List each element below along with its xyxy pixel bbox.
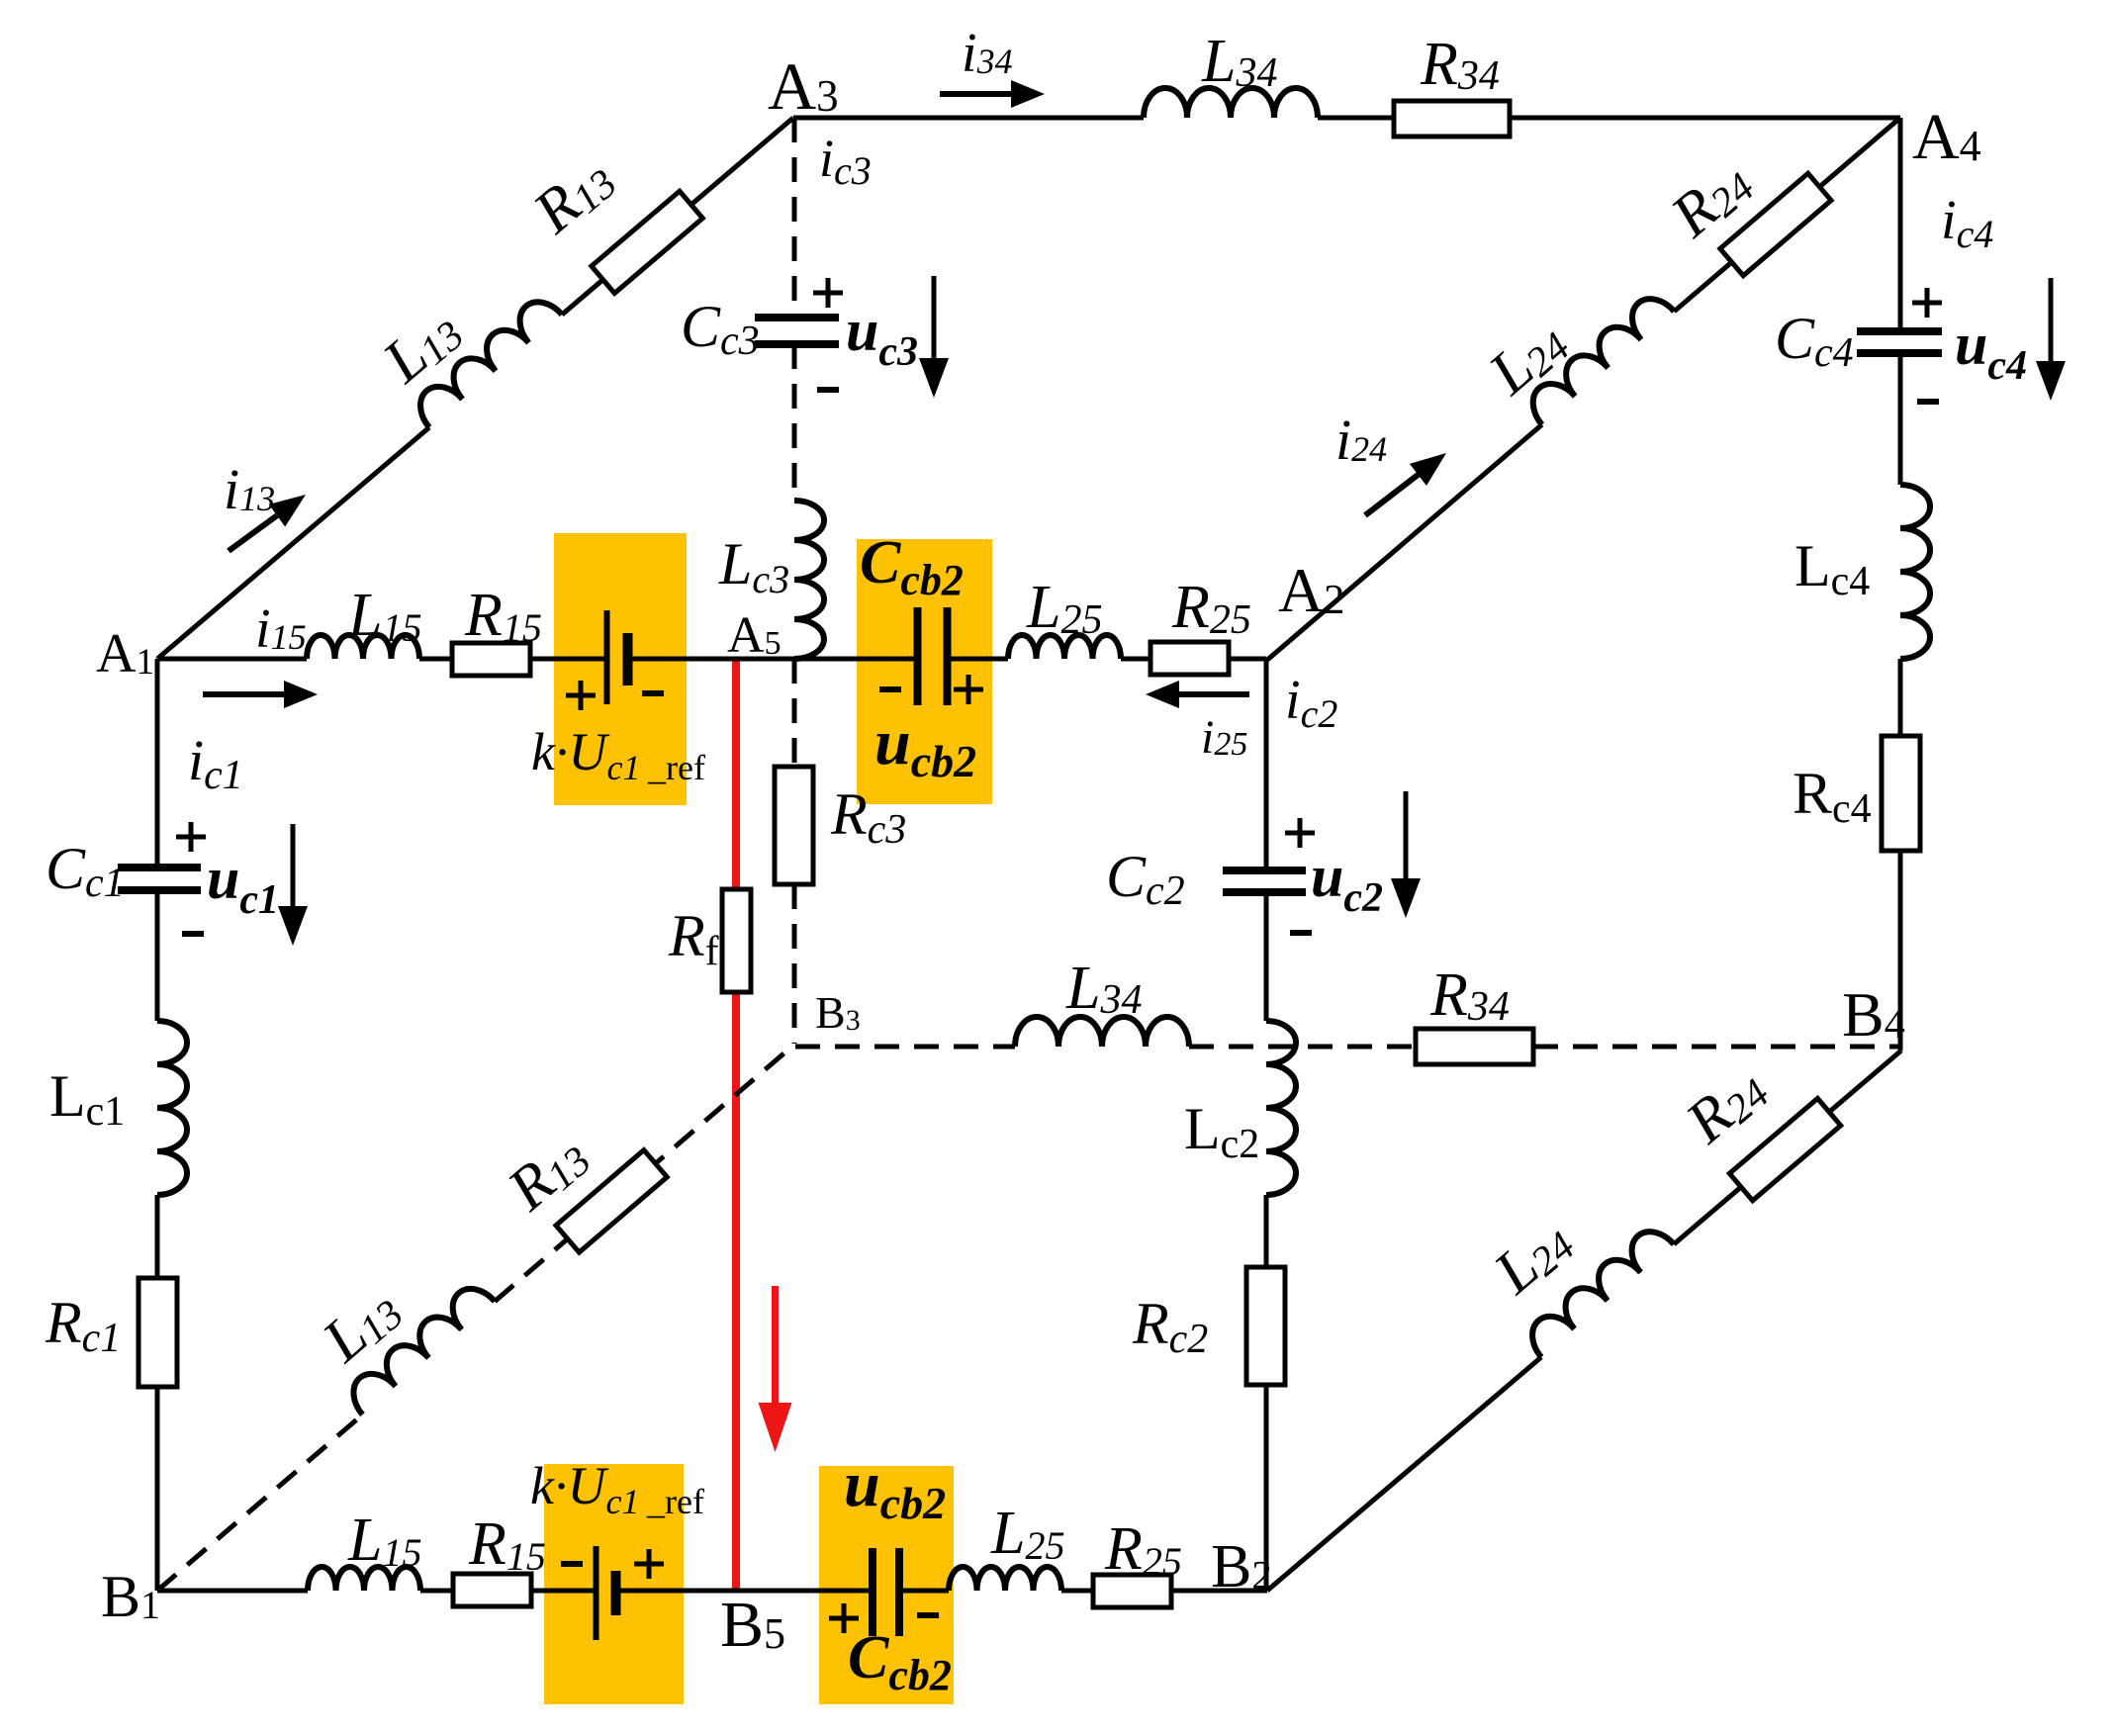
wire Cc1 to Lc1 [155,890,160,1021]
wire B1 to L15 [157,1589,308,1594]
svg-text:R15: R15 [464,582,542,650]
label minus Cc1 [182,931,204,937]
voltage arrow uc3 [932,276,937,358]
current arrow i25 [1179,691,1249,697]
wire L15 to battery (bottom) [420,1589,596,1594]
resistor R13 (top diagonal) [592,191,702,293]
svg-text:Rc2: Rc2 [1132,1291,1208,1362]
wire battery to Ccb2 [628,657,914,662]
wire Cc4 to Lc4 [1898,353,1903,485]
inductor L13 (top diagonal) [411,292,562,427]
svg-text:uc1: uc1 [207,846,279,923]
svg-text:A1: A1 [96,623,154,685]
label minus Cc2 [1290,930,1312,936]
wire Ccb2 to L25 [951,657,1008,662]
wire B3 to L34 (dashed) [795,1045,1015,1050]
voltage source kUc1_ref plate long (top) [604,610,610,704]
inductor L25 (bottom) [949,1567,1061,1591]
svg-text:_ref: _ref [646,1482,704,1521]
label plus Cc1 [176,835,206,840]
capacitor Cc4 bottom plate [1857,349,1942,357]
inductor L13 (bottom diagonal) [343,1279,495,1415]
wire Lc1 to B1 [155,1195,160,1591]
resistor Rc2 [1246,1267,1285,1385]
svg-text:L25: L25 [990,1500,1064,1568]
capacitor Cc1 top plate [118,864,201,871]
inductor L34 (top) [1144,88,1318,118]
inductor L15 (bottom) [308,1567,420,1591]
svg-text:A5: A5 [727,607,782,664]
label plus Ccb2 bottom [829,1616,859,1621]
label L13 (bottom) [310,1274,413,1376]
svg-text:R13: R13 [520,143,625,247]
svg-text:uc4: uc4 [1955,312,2027,389]
label L24 (top) [1476,307,1579,409]
resistor Rc3 [775,767,813,884]
voltage source kUc1_ref plate short (top) [623,633,633,685]
voltage arrow uc4 [2049,278,2054,361]
wire L24 to B4 [1674,1051,1901,1244]
wire Rc3 to B3 (dashed) [792,884,797,1044]
label plus Cc3 [813,291,843,296]
svg-text:R25: R25 [1104,1515,1182,1584]
svg-text:Lc1: Lc1 [49,1063,125,1135]
fault current arrow (red) [772,1286,779,1403]
svg-text:A3: A3 [768,48,839,124]
capacitor Ccb2 right plate (bottom) [895,1548,903,1636]
label minus battery top [642,690,664,696]
svg-text:B5: B5 [720,1589,785,1661]
inductor L24 (bottom diagonal) [1522,1222,1674,1357]
highlight box source kUc1_ref (bottom) [544,1464,684,1704]
resistor R25 (top) [1150,642,1229,675]
svg-text:B3: B3 [815,987,861,1038]
wire A3 to L34 [793,116,1144,121]
svg-text:A4: A4 [1912,101,1981,173]
resistor R24 (top diagonal) [1720,173,1831,275]
capacitor Cc4 top plate [1857,327,1942,335]
svg-text:R24: R24 [1673,1053,1778,1157]
capacitor Ccb2 left plate (bottom) [869,1548,876,1636]
wire Lc2 to B2 [1264,1195,1269,1591]
label plus Cc4 [1912,301,1942,306]
label minus battery bottom [561,1561,583,1567]
svg-text:Rc4: Rc4 [1793,761,1872,832]
highlight box Ccb2 (top) [857,539,992,804]
resistor R13 (bottom diagonal) [556,1150,667,1252]
svg-text:L34: L34 [1201,28,1277,96]
resistor Rf [722,889,751,992]
current arrow i34 [940,91,1011,97]
capacitor Cc3 bottom plate [755,340,839,348]
label R24 (top) [1658,147,1763,251]
svg-text:i25: i25 [1201,711,1247,764]
label R13 (top) [520,143,625,247]
wire L13 to A3 [562,118,793,315]
wire battery to Ccb2 (bottom) [616,1589,869,1594]
resistor R34 (top) [1394,101,1510,137]
svg-text:B1: B1 [101,1564,160,1629]
svg-text:Rc1: Rc1 [45,1290,121,1361]
wire A1 to L13 [157,427,429,659]
wire node A5x to Rc3 (dashed) [792,659,797,767]
wire L15 to battery [419,657,606,662]
svg-text:ic3: ic3 [819,129,872,193]
capacitor Ccb2 left plate (top) [914,607,922,705]
wire Lc4 to B4 [1898,659,1903,1051]
svg-text:uc3: uc3 [846,298,918,375]
svg-text:L13: L13 [370,295,473,397]
resistor R15 (bottom) [453,1574,531,1606]
label R24 (bottom) [1673,1053,1778,1157]
svg-text:i13: i13 [224,457,275,521]
inductor L25 (top) [1008,635,1121,659]
label L13 (top) [370,295,473,397]
svg-text:uc2: uc2 [1311,844,1383,921]
label L24 (bottom) [1481,1206,1584,1308]
wire L34 to A4 [1318,116,1900,121]
current arrow i13 [229,515,277,551]
voltage arrow uc1 [291,824,296,906]
inductor L34 (bottom) [1015,1017,1189,1047]
svg-text:i24: i24 [1335,408,1387,472]
wire L34 to R34 (dashed) [1189,1045,1416,1050]
svg-text:Cc1: Cc1 [46,836,125,906]
resistor Rc1 [138,1278,177,1387]
voltage arrow uc2 [1404,791,1409,878]
capacitor Ccb2 right plate (top) [944,607,952,705]
svg-text:B4: B4 [1842,979,1905,1050]
label plus Cc2 [1285,831,1315,836]
svg-text:L15: L15 [347,582,421,650]
svg-text:_ref: _ref [647,748,705,787]
resistor R34 (bottom) [1416,1029,1533,1064]
wire A3 to Cc3 (dashed) [792,118,797,318]
label minus Ccb2 bottom [917,1612,939,1618]
wire A1 to Cc1 [155,659,160,868]
wire Ccb2 to L25 (bottom) [903,1589,949,1594]
svg-text:R34: R34 [1429,961,1510,1030]
wire L25 to B2 [1061,1589,1267,1594]
svg-text:Cc2: Cc2 [1106,844,1185,914]
highlight box source kUc1_ref (top) [554,533,687,805]
svg-text:L13: L13 [310,1274,413,1376]
current arrow i15 [203,691,284,697]
svg-text:Lc4: Lc4 [1794,533,1870,604]
voltage source kUc1_ref plate short (bottom) [611,1571,621,1615]
label plus battery top [566,693,596,698]
svg-text:L15: L15 [347,1507,421,1575]
resistor R25 (bottom) [1093,1575,1171,1607]
inductor Lc1 [157,1021,187,1195]
capacitor Cc1 bottom plate [118,886,201,894]
capacitor Cc2 top plate [1223,867,1306,874]
wire B2 to L24 [1267,1357,1541,1591]
svg-text:R15: R15 [468,1510,546,1579]
svg-text:ucb2: ucb2 [844,1448,946,1528]
svg-text:ic2: ic2 [1285,670,1337,736]
label plus battery bottom [634,1562,664,1567]
svg-text:B2: B2 [1211,1533,1272,1600]
label minus Cc3 [817,387,839,393]
svg-text:ic4: ic4 [1941,190,1993,256]
fault wire A5-B5 (red) [732,659,740,1591]
wire A1 to L15 [157,657,307,662]
inductor Lc4 [1900,485,1930,659]
label minus Ccb2 top [879,686,901,692]
svg-text:A2: A2 [1278,555,1344,625]
voltage source kUc1_ref plate long (bottom) [594,1546,599,1640]
svg-text:Cc3: Cc3 [681,294,760,364]
current arrow i24 [1365,475,1418,515]
wire A2 to Cc2 [1264,659,1269,870]
wire R34 to B4 (dashed) [1533,1045,1901,1050]
wire L13 to B3 (dashed) [495,1044,795,1302]
resistor R15 (top) [452,643,530,676]
svg-text:L34: L34 [1065,955,1142,1023]
svg-text:Lc2: Lc2 [1184,1096,1259,1167]
svg-text:Cc4: Cc4 [1775,306,1854,376]
svg-text:L25: L25 [1026,574,1102,643]
wire B1 to L13 (dashed) [157,1415,362,1591]
inductor Lc2 [1266,1021,1296,1195]
label minus Cc4 [1917,399,1939,405]
svg-text:L24: L24 [1476,307,1579,409]
svg-text:i15: i15 [255,598,307,660]
wire Cc2 to Lc2 [1264,892,1269,1021]
svg-text:ic1: ic1 [188,728,243,798]
label plus Ccb2 top [954,687,983,692]
capacitor Cc3 top plate [755,314,839,321]
resistor Rc4 [1882,736,1920,851]
wire L24 to A4 [1674,118,1900,312]
inductor Lc3 [794,501,824,659]
wire L25 to A2 [1121,657,1266,662]
inductor L15 (top) [307,635,419,659]
wire A4 to Cc4 [1898,118,1903,331]
wire A2 to L24 [1266,424,1542,661]
wire Cc3 to Lc3 (dashed) [792,344,797,501]
svg-text:R25: R25 [1171,574,1251,643]
inductor L24 (top diagonal) [1522,289,1674,424]
label R13 (bottom) [495,1121,599,1225]
capacitor Cc2 bottom plate [1223,888,1306,896]
resistor R24 (bottom diagonal) [1729,1098,1840,1200]
svg-text:R34: R34 [1420,31,1500,99]
svg-text:Lc3: Lc3 [718,531,789,601]
svg-text:Rf: Rf [668,903,719,974]
svg-text:i34: i34 [962,23,1013,84]
highlight box Ccb2 (bottom) [819,1466,954,1704]
